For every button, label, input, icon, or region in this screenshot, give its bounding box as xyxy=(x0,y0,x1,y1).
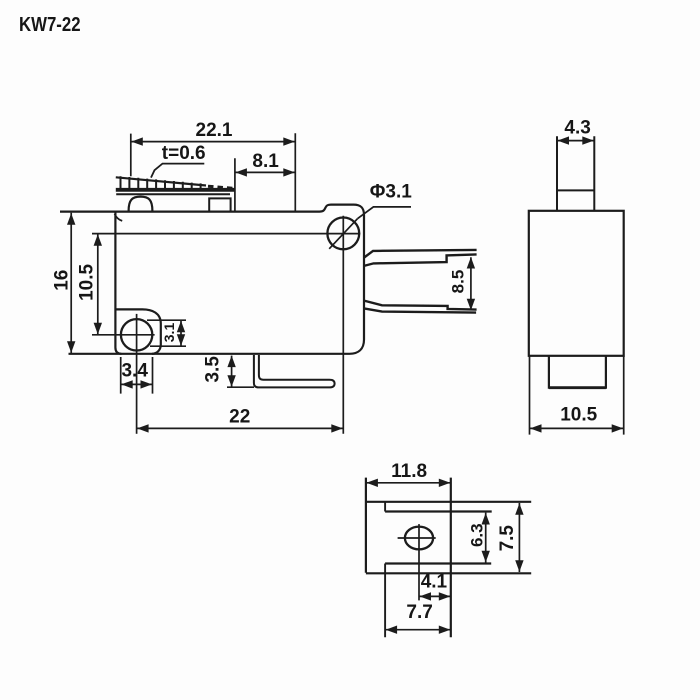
svg-text:11.8: 11.8 xyxy=(391,461,427,482)
svg-text:10.5: 10.5 xyxy=(77,263,98,300)
svg-text:3.5: 3.5 xyxy=(203,356,224,383)
svg-text:22.1: 22.1 xyxy=(196,120,233,141)
svg-text:16: 16 xyxy=(52,270,73,291)
svg-text:4.1: 4.1 xyxy=(421,572,448,593)
svg-text:8.5: 8.5 xyxy=(449,270,468,294)
svg-text:4.3: 4.3 xyxy=(564,118,590,139)
svg-text:3.1: 3.1 xyxy=(161,323,177,343)
svg-text:3.4: 3.4 xyxy=(121,361,148,382)
svg-text:t=0.6: t=0.6 xyxy=(162,143,206,164)
svg-text:7.7: 7.7 xyxy=(406,602,432,623)
svg-text:10.5: 10.5 xyxy=(560,404,597,425)
svg-text:22: 22 xyxy=(229,406,250,427)
svg-text:6.3: 6.3 xyxy=(467,523,486,547)
svg-text:Φ3.1: Φ3.1 xyxy=(370,181,412,202)
svg-text:KW7-22: KW7-22 xyxy=(19,13,81,36)
svg-text:7.5: 7.5 xyxy=(497,525,518,552)
svg-text:8.1: 8.1 xyxy=(252,151,279,172)
